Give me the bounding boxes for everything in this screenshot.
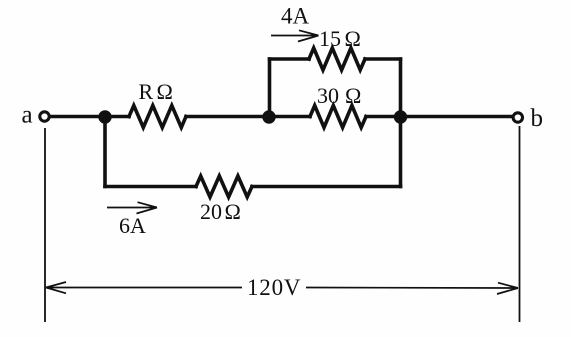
svg-text:4A: 4A bbox=[281, 4, 310, 29]
wire a to J1 bbox=[51, 115, 106, 119]
svg-text:6A: 6A bbox=[119, 213, 146, 238]
leader line below terminal a bbox=[44, 128, 46, 322]
current label 6A bbox=[119, 213, 146, 238]
value label 15 ohm bbox=[319, 26, 361, 51]
junction J3 bbox=[394, 110, 407, 123]
wire top branch left bbox=[270, 57, 310, 61]
value label 20 ohm bbox=[200, 199, 241, 224]
resistor 30 ohm bbox=[310, 106, 366, 128]
svg-text:30: 30 bbox=[317, 83, 339, 108]
svg-text:120V: 120V bbox=[247, 275, 301, 300]
terminal a bbox=[40, 112, 49, 121]
value label R ohm bbox=[139, 79, 173, 104]
svg-text:20: 20 bbox=[200, 199, 222, 224]
svg-text:b: b bbox=[531, 105, 544, 132]
voltage label 120V bbox=[247, 275, 301, 300]
svg-text:Ω: Ω bbox=[225, 199, 241, 224]
wire J1 down to bottom branch bbox=[103, 117, 107, 187]
dimension arrow 120V left segment bbox=[46, 282, 242, 293]
wire 30ohm to J3 bbox=[366, 115, 401, 119]
leader line below terminal b bbox=[519, 126, 521, 322]
wire J2 up to top branch bbox=[268, 59, 272, 117]
wire R to J2 bbox=[186, 115, 269, 119]
wire top branch right bbox=[365, 57, 401, 61]
wire J1 to resistor R bbox=[105, 115, 129, 119]
current arrow 6A bbox=[107, 202, 157, 213]
value label 30 ohm bbox=[317, 83, 361, 108]
wire bottom branch left bbox=[105, 185, 196, 189]
node a label bbox=[22, 102, 33, 129]
terminal b bbox=[513, 113, 522, 122]
svg-text:Ω: Ω bbox=[345, 26, 361, 51]
svg-text:R: R bbox=[139, 79, 154, 104]
junction J1 bbox=[98, 110, 111, 123]
svg-text:15: 15 bbox=[319, 26, 341, 51]
svg-text:a: a bbox=[22, 102, 33, 129]
wire right vertical top-to-bottom branch bbox=[399, 59, 403, 187]
dimension arrow 120V right segment bbox=[306, 283, 518, 294]
resistor 15 ohm bbox=[309, 48, 365, 70]
svg-text:Ω: Ω bbox=[157, 79, 173, 104]
svg-text:Ω: Ω bbox=[345, 83, 361, 108]
resistor R1 bbox=[129, 106, 186, 128]
current arrow 4A bbox=[271, 30, 319, 41]
node b label bbox=[531, 105, 544, 132]
wire J2 to 30ohm bbox=[269, 115, 310, 119]
junction J2 bbox=[262, 110, 275, 123]
wire bottom branch right bbox=[252, 185, 401, 189]
resistor 20 ohm bbox=[196, 176, 252, 197]
wire J3 to terminal b bbox=[401, 115, 513, 119]
current label 4A bbox=[281, 4, 310, 29]
